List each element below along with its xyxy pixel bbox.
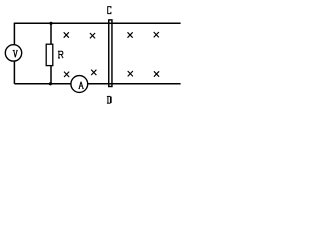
- node: bottom junction dot: [49, 82, 52, 85]
- ammeter A: [71, 76, 88, 93]
- voltmeter V: [5, 45, 21, 61]
- wire: bottom rail from left loop corner to right end: [14, 83, 180, 85]
- resistor R1 box: [46, 44, 53, 65]
- conducting rod C-D (sliding bar on rails): [109, 20, 112, 87]
- magnetic field symbol x row2 col4: [154, 71, 159, 76]
- wire: left vertical branch through voltmeter: [13, 23, 15, 84]
- wire: resistor branch vertical: [50, 23, 52, 84]
- wire: top rail from left loop corner to right end: [14, 22, 180, 24]
- node: top junction dot: [49, 22, 52, 25]
- magnetic field symbol x row1 col3: [128, 32, 133, 37]
- magnetic field symbol x row1 col1: [64, 32, 69, 37]
- label R: [58, 51, 63, 58]
- label A: [79, 82, 84, 89]
- magnetic field symbol x row2 col3: [128, 71, 133, 76]
- label C (top of rod): [108, 7, 111, 14]
- label V: [13, 50, 18, 57]
- magnetic field symbol x row2 col1: [64, 72, 69, 77]
- magnetic field symbol x row2 col2: [91, 70, 96, 75]
- magnetic field symbol x row1 col4: [154, 32, 159, 37]
- label D (bottom of rod): [107, 96, 111, 103]
- magnetic field symbol x row1 col2: [90, 33, 95, 38]
